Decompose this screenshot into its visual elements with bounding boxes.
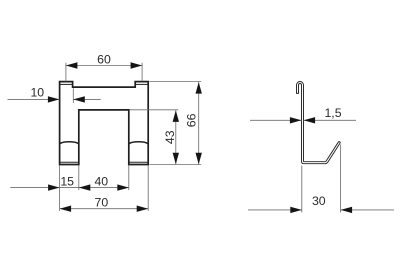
svg-text:70: 70 (95, 195, 109, 209)
dimension 40: left arrow (79, 184, 91, 190)
dimension 66: line (198, 82, 200, 164)
left foot inner line (60, 161, 79, 163)
dimension 1,5: left arrow (290, 117, 302, 123)
dimension 10: extension line (72, 88, 74, 103)
bottom extension line at right leg inner edge (128, 165, 130, 190)
svg-text:1,5: 1,5 (324, 106, 341, 120)
svg-text:60: 60 (97, 52, 111, 66)
dimension 60: extension line left (65, 63, 67, 82)
left tab fold line (60, 83, 73, 85)
right foot inner line (129, 161, 148, 163)
dimension 60: right arrow (131, 62, 143, 68)
dimension 15: left arrow (48, 184, 60, 190)
svg-text:10: 10 (30, 86, 44, 100)
dimension 70: left arrow (60, 206, 72, 212)
svg-text:30: 30 (312, 194, 326, 208)
dimension 43: top arrow (173, 110, 179, 122)
dimension 15/40: line (10, 187, 129, 189)
bottom extension line at part right edge (147, 165, 149, 211)
dimension 10: right tail line (73, 98, 100, 100)
svg-text:66: 66 (185, 113, 199, 127)
dimension 30: left tail line (248, 209, 302, 211)
dimension 30: extension line right (340, 145, 342, 213)
dimension 30: left arrow (290, 207, 302, 213)
right foot bend arc (129, 142, 148, 144)
bottom extension line at left leg inner edge (78, 165, 80, 190)
dimension 43: bottom arrow (173, 153, 179, 165)
dimension 30: extension line left (301, 166, 303, 213)
dimension 30: right tail line (341, 209, 394, 211)
dimension 10: right arrow (73, 96, 85, 102)
dimension 66: bottom arrow (196, 153, 202, 165)
dimension 1,5: right arrow (304, 117, 316, 123)
svg-text:43: 43 (163, 130, 177, 144)
part outline (front view) (60, 82, 149, 165)
dimension 1,5: right tail line (304, 119, 356, 121)
dimension 66: top arrow (196, 82, 202, 94)
svg-text:40: 40 (94, 175, 108, 189)
dimension 60: line (66, 65, 142, 67)
dimension 40: right arrow (117, 184, 129, 190)
dimension 70: right arrow (137, 206, 149, 212)
dimension 1,5: left tail line (250, 119, 301, 121)
dimension 43: line (175, 110, 177, 164)
dimension 66: extension line top (149, 81, 201, 83)
bottom extension line at part left edge (59, 165, 61, 211)
dimension 10: left arrow (48, 96, 60, 102)
dimension 43: extension line top (130, 109, 179, 111)
dimension 60: left arrow (66, 62, 78, 68)
dimension 60: extension line right (141, 63, 143, 82)
left foot bend arc (60, 142, 79, 144)
side view sheet profile (closed contour) (297, 82, 341, 164)
svg-text:15: 15 (60, 175, 74, 189)
dimension 70: line (60, 208, 149, 210)
dimension 10: left tail line (8, 98, 60, 100)
right tab fold line (135, 83, 148, 85)
dimension 66: extension line bottom (149, 164, 201, 166)
dimension 30: right arrow (341, 207, 353, 213)
